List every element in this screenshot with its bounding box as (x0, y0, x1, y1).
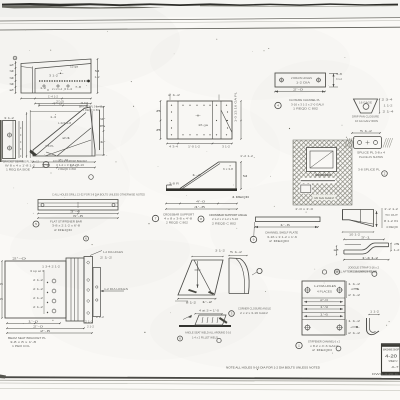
svg-text:SHEET 2: SHEET 2 (389, 361, 399, 363)
svg-text:4'-0: 4'-0 (196, 200, 206, 204)
svg-text:1-2: 1-2 (394, 249, 400, 252)
svg-text:TO OUT: TO OUT (385, 214, 399, 217)
svg-text:MACHINE SHOP: MACHINE SHOP (383, 348, 399, 351)
svg-text:DWG 4-20 C: DWG 4-20 C (372, 374, 399, 376)
svg-text:PLACE AS SHOWN: PLACE AS SHOWN (359, 155, 383, 159)
svg-text:1 PER COL: 1 PER COL (12, 344, 31, 348)
svg-text:4'-8: 4'-8 (194, 205, 206, 209)
svg-text:3-8 SPLICE PL: 3-8 SPLICE PL (358, 168, 381, 172)
svg-text:2 REQD C 802: 2 REQD C 802 (166, 221, 189, 225)
svg-text:3: 3 (394, 243, 400, 246)
svg-text:4-20: 4-20 (385, 354, 398, 359)
svg-text:SPLICE PL 3-8 x 4: SPLICE PL 3-8 x 4 (357, 151, 386, 155)
svg-text:1'-2 1-2: 1'-2 1-2 (384, 208, 399, 211)
